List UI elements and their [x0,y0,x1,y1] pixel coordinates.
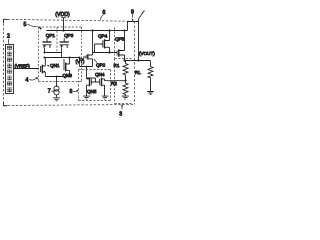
ground QN5 [83,96,90,99]
terminal output [141,11,145,16]
wire channel bars overlay [42,39,119,86]
svg-text:3: 3 [119,111,122,117]
text vertical kanji [7,46,12,92]
svg-text:QN5: QN5 [87,89,97,94]
svg-text:8: 8 [70,89,73,95]
reference box 2 [6,45,14,94]
ground R2 [122,96,129,99]
ground RL [147,92,154,95]
svg-text:7: 7 [48,89,51,95]
wire leader 6 [101,15,104,21]
diff amp dashed box 5 [39,27,82,82]
svg-text:QP1: QP1 [46,33,56,38]
wire mirror gate line [45,52,62,54]
svg-text:QP4: QP4 [98,34,108,39]
transistor QN5 [87,78,92,86]
wire VT drop [79,58,81,67]
svg-text:QN4: QN4 [95,72,105,77]
node VDD rail [47,30,128,32]
svg-text:R2: R2 [111,81,117,86]
chip outer dashed box 1 [4,19,8,106]
wire arrow 9 [132,14,134,18]
transistor QN1 [41,65,46,73]
transistor QN2 [64,59,70,71]
svg-text:(VREF): (VREF) [15,64,31,69]
wire VOUT row [125,60,151,62]
svg-text:(VOUT): (VOUT) [139,51,155,56]
svg-text:2: 2 [7,33,10,39]
svg-text:QP2: QP2 [96,63,106,68]
ground QN4 [102,96,109,99]
wire VDD feed [61,18,65,31]
wire tail [45,76,69,78]
wire gate tie [87,78,100,82]
svg-text:RL: RL [135,70,141,75]
wire drain row [45,57,80,59]
svg-text:(VT): (VT) [76,59,85,64]
svg-text:QP3: QP3 [64,33,74,38]
svg-text:(VDD): (VDD) [55,12,70,18]
wire feedback tap [105,80,126,82]
svg-text:4: 4 [26,78,29,84]
wire VOUT riser [128,21,139,61]
wire gate bus [93,52,118,54]
current source 7 [54,86,59,91]
svg-text:R1: R1 [114,63,120,68]
svg-text:5: 5 [24,22,27,28]
svg-text:QP5: QP5 [115,37,125,42]
ground [53,98,60,101]
wire VREF [14,68,39,70]
svg-text:QN3: QN3 [63,73,73,78]
current mirror dashed box 8 [79,70,111,101]
divider dashed box 3 [115,28,132,104]
svg-text:QN1: QN1 [50,63,60,68]
wire leader 5 [28,24,39,27]
